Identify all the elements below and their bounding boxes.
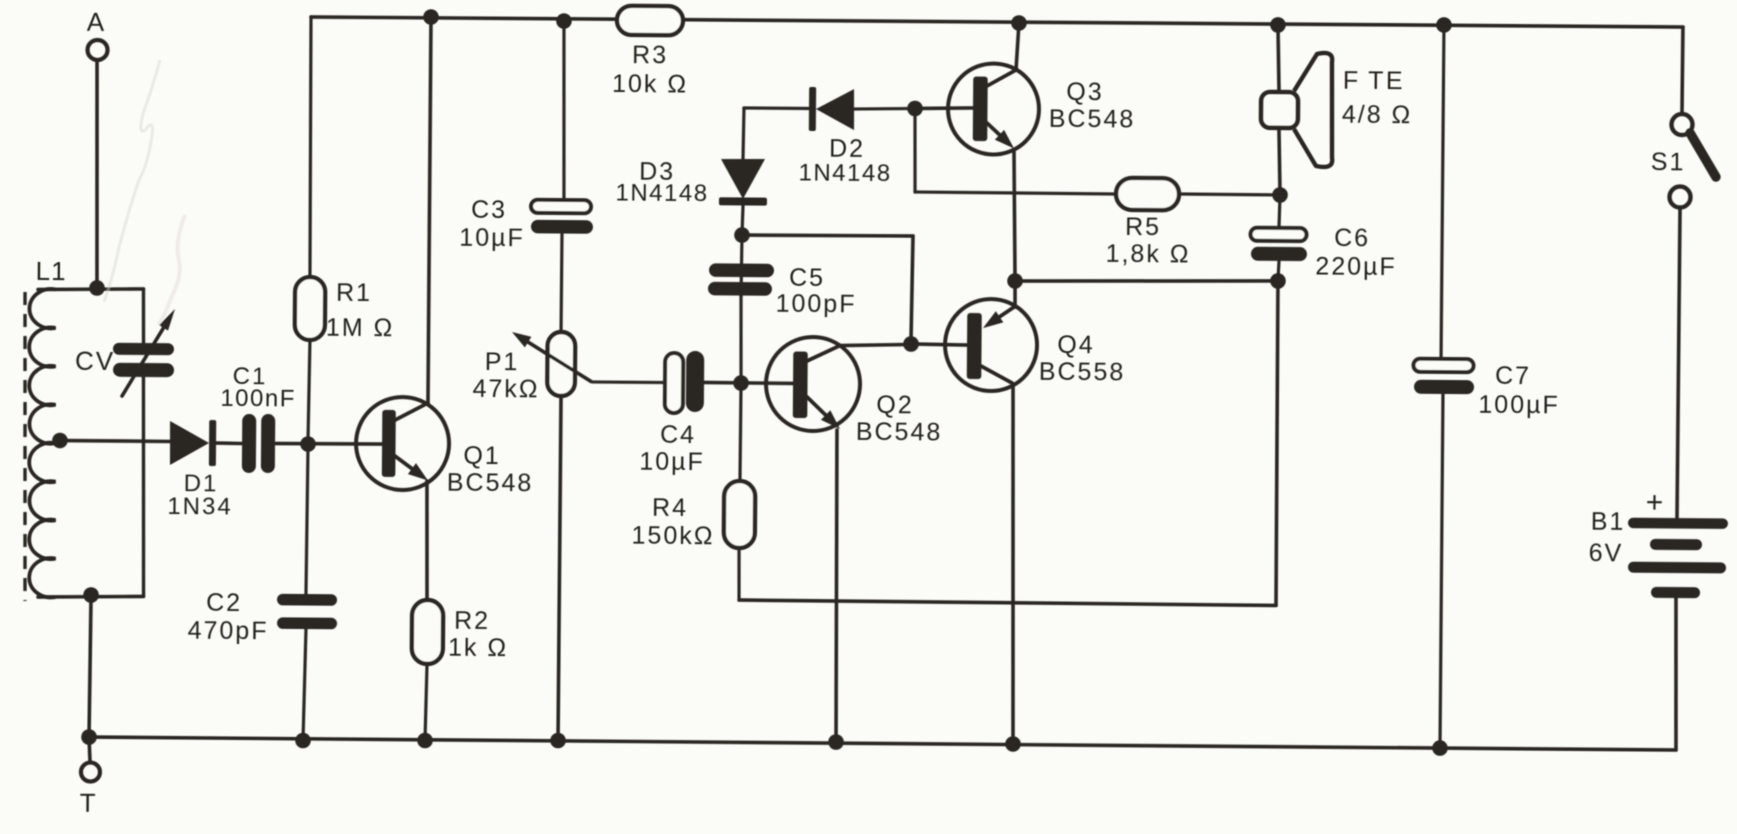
node C6 / output / feedback: [1270, 273, 1286, 289]
svg-text:1N4148: 1N4148: [798, 160, 891, 188]
resistor R3 10k: [612, 6, 689, 99]
svg-text:C3: C3: [471, 196, 507, 224]
wire (tap to D1): [60, 439, 170, 444]
diode D3 1N4148: [615, 107, 768, 235]
wire (output node to Q4 emitter): [1013, 281, 1017, 307]
wire (Q3 emitter down): [1013, 150, 1016, 281]
svg-text:C2: C2: [206, 589, 242, 617]
svg-text:BC548: BC548: [856, 418, 943, 447]
svg-text:BC548: BC548: [447, 469, 534, 498]
svg-text:150kΩ: 150kΩ: [631, 522, 714, 551]
transistor Q1 BC548: [356, 397, 534, 498]
svg-text:C6: C6: [1334, 224, 1370, 252]
wire (Q1 collector to +V rail): [428, 17, 431, 403]
wire (Q2 collector to Q4 base node): [840, 344, 911, 346]
svg-text:6V: 6V: [1589, 539, 1624, 567]
wire (P1 bottom to ground rail): [558, 396, 561, 740]
node Q1 base / R1 / C2: [300, 436, 316, 452]
svg-text:1k Ω: 1k Ω: [448, 634, 508, 662]
terminal T (earth): [80, 762, 100, 818]
node Q2 collector / Q4 base: [903, 336, 919, 352]
node R2 ground: [417, 733, 433, 749]
wire (tank bottom): [38, 596, 144, 598]
node C2 ground: [295, 733, 311, 749]
wire (D1 to C1): [216, 441, 242, 445]
potentiometer P1 47k: [472, 331, 665, 404]
wire (Q4 collector to ground rail): [1010, 384, 1016, 744]
wire (S1 to battery): [1677, 208, 1680, 518]
wire (speaker to R5/C6 node): [1278, 128, 1280, 195]
svg-text:A: A: [87, 7, 106, 37]
capacitor C3 10uF (electrolytic): [459, 20, 595, 332]
resistor R1 1M: [294, 17, 397, 444]
node Q2 emitter ground: [828, 734, 844, 750]
wire (antenna lead): [95, 60, 98, 286]
svg-text:C4: C4: [660, 421, 696, 449]
svg-text:1N34: 1N34: [167, 493, 233, 521]
node R5 / C6 / speaker: [1272, 187, 1288, 203]
svg-text:F TE: F TE: [1343, 67, 1405, 95]
svg-text:10µF: 10µF: [459, 224, 525, 253]
node Q3 collector rail junction: [1011, 15, 1027, 31]
node C7 ground: [1432, 740, 1448, 756]
svg-text:CV: CV: [75, 346, 115, 376]
node Q2 base / C5 / R4: [733, 375, 749, 391]
svg-text:Q3: Q3: [1066, 78, 1104, 106]
svg-text:4/8 Ω: 4/8 Ω: [1342, 101, 1413, 130]
wire (feedback line up to output node): [1275, 281, 1278, 605]
svg-text:1,8k Ω: 1,8k Ω: [1106, 240, 1191, 269]
node C3 rail junction: [556, 13, 572, 29]
wire (C5 node to Q4 base node): [742, 235, 913, 237]
capacitor C1 100nF: [220, 363, 296, 474]
wire (to Q3 base): [915, 108, 973, 109]
svg-text:R1: R1: [336, 279, 372, 307]
transistor Q3 BC548: [948, 63, 1136, 155]
svg-text:Q1: Q1: [463, 442, 501, 470]
switch S1: [1650, 114, 1716, 208]
wire (S1 drop from +V rail): [1680, 27, 1685, 113]
svg-text:C5: C5: [789, 264, 825, 292]
resistor R2 1k: [411, 600, 508, 741]
svg-text:1M Ω: 1M Ω: [326, 314, 395, 343]
node output emitters junction: [1007, 273, 1023, 289]
node coil tap: [52, 433, 68, 449]
wire (rail to speaker): [1277, 25, 1279, 92]
svg-text:R5: R5: [1125, 213, 1161, 241]
wire (top +V rail): [311, 16, 1683, 27]
svg-text:C7: C7: [1495, 362, 1531, 390]
node D3 cathode / C5: [734, 227, 750, 243]
capacitor C2 470pF: [187, 443, 339, 740]
svg-text:220µF: 220µF: [1315, 253, 1397, 282]
resistor R4 150k: [631, 382, 756, 600]
wire (C1 to Q1 base node): [275, 443, 382, 444]
svg-text:R3: R3: [632, 41, 668, 69]
svg-text:B1: B1: [1591, 508, 1626, 536]
wire (output node to C6 node): [1015, 279, 1278, 283]
transistor Q4 BC558: [945, 299, 1126, 392]
wire (Q2 emitter to ground rail): [835, 430, 839, 742]
wire (C4 to Q2 base): [704, 381, 793, 386]
svg-text:BC558: BC558: [1039, 358, 1126, 387]
node antenna/tank junction: [89, 280, 105, 296]
svg-text:100pF: 100pF: [776, 290, 857, 319]
capacitor C4 10uF (electrolytic): [639, 351, 705, 477]
wire (T lead): [89, 737, 90, 762]
node T junction: [81, 729, 97, 745]
svg-text:100nF: 100nF: [220, 385, 296, 413]
svg-text:47kΩ: 47kΩ: [472, 375, 539, 404]
diode D2 1N4148: [743, 86, 915, 187]
svg-text:+: +: [1646, 486, 1665, 519]
node P1 ground: [550, 733, 566, 749]
capacitor C7 100uF (electrolytic): [1410, 25, 1562, 749]
transistor Q2 BC548: [766, 337, 943, 447]
wire (bottom ground rail): [89, 737, 1676, 750]
capacitor C6 220uF (electrolytic): [1250, 195, 1397, 282]
node tank bottom junction: [83, 587, 99, 603]
ferrite core dashed line: [23, 292, 28, 601]
svg-text:S1: S1: [1651, 148, 1686, 176]
svg-text:D2: D2: [829, 135, 865, 163]
speaker FTE 4/8 ohm: [1261, 52, 1413, 167]
battery B1 6V: [1588, 486, 1728, 599]
svg-text:T: T: [80, 788, 97, 818]
svg-text:470pF: 470pF: [188, 617, 269, 646]
variable capacitor CV: [73, 288, 175, 596]
wire (feedback line bottom): [739, 600, 1276, 605]
wire (Q1 emitter to R2): [426, 481, 428, 600]
wire (down to Q4 base node): [911, 236, 913, 343]
capacitor C5 100pF: [707, 235, 857, 384]
node Q1 collector rail junction: [423, 9, 439, 25]
node Q3 base / D2 / R5: [907, 101, 923, 117]
terminal A (antenna): [87, 7, 108, 60]
wire (battery to ground rail): [1675, 598, 1677, 750]
svg-text:10k Ω: 10k Ω: [612, 70, 688, 99]
svg-text:R4: R4: [652, 494, 688, 522]
inductor L1 (tapped coil): [27, 256, 66, 598]
wire (tank to ground rail): [89, 596, 91, 737]
wire (tank top): [38, 288, 143, 290]
svg-text:100µF: 100µF: [1478, 391, 1560, 420]
node speaker rail junction: [1270, 17, 1286, 33]
svg-text:BC548: BC548: [1049, 105, 1136, 134]
svg-text:R2: R2: [454, 607, 490, 635]
diode D1 1N34: [167, 420, 233, 521]
svg-text:L1: L1: [36, 256, 67, 286]
scan smudge (decor): [104, 60, 160, 302]
node Q4 collector ground: [1005, 736, 1021, 752]
wire (Q3 collector to +V rail): [1016, 23, 1019, 70]
svg-text:1N4148: 1N4148: [615, 180, 708, 208]
svg-text:P1: P1: [485, 348, 520, 376]
wire (Q4 base lead): [911, 344, 967, 345]
svg-text:10µF: 10µF: [639, 448, 705, 477]
svg-text:Q2: Q2: [876, 391, 914, 419]
resistor R5 1.8k: [914, 109, 1281, 270]
svg-text:Q4: Q4: [1057, 331, 1095, 359]
node C7 rail junction: [1436, 17, 1452, 33]
